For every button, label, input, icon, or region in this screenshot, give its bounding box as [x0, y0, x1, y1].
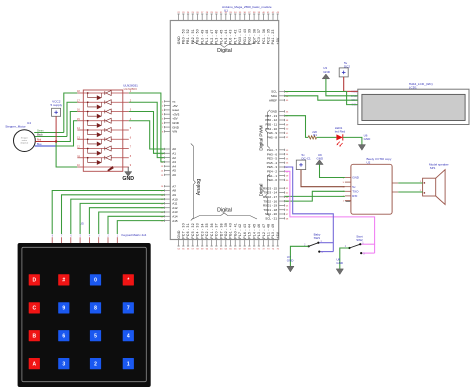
svg-text:5: 5 — [130, 127, 132, 130]
svg-text:+5V: +5V — [276, 231, 280, 238]
svg-text:GND: GND — [177, 36, 181, 45]
svg-text:2: 2 — [108, 235, 110, 238]
svg-text:1: 1 — [162, 101, 164, 103]
svg-text:PC2 - 35: PC2 - 35 — [205, 223, 209, 238]
svg-text:GND: GND — [287, 259, 295, 263]
svg-text:39: 39 — [258, 12, 261, 14]
svg-text:33: 33 — [229, 12, 232, 14]
svg-text:7: 7 — [162, 127, 164, 129]
keypad key 9 — [58, 302, 69, 313]
svg-text:60: 60 — [286, 180, 289, 182]
U1 right digital pins PH4..PE0 — [267, 148, 289, 182]
wire VCC2 to red node — [55, 116, 57, 141]
svg-text:4: 4 — [89, 235, 91, 238]
svg-text:4: 4 — [127, 334, 130, 340]
svg-text:PD7 - 38: PD7 - 38 — [219, 223, 223, 238]
svg-text:PC4 - 33: PC4 - 33 — [196, 223, 200, 238]
switch SW1 Baby — [304, 233, 323, 255]
wire DC1 to U2 5v pin — [301, 170, 345, 187]
svg-text:12: 12 — [77, 146, 80, 149]
svg-text:3: 3 — [98, 235, 100, 238]
svg-text:PL6 - 43: PL6 - 43 — [243, 224, 247, 239]
svg-text:54: 54 — [286, 154, 289, 156]
svg-text:Blue: Blue — [37, 144, 42, 146]
svg-text:71: 71 — [258, 249, 261, 251]
U1 right Digital bracket label — [259, 174, 270, 217]
wire stepper Green to ULN pin 18 — [64, 93, 78, 133]
wire ULN pin 3 to U1 A1 — [129, 112, 165, 154]
svg-text:Black: Black — [37, 135, 43, 137]
stepper lead Blue — [35, 144, 56, 146]
svg-text:PC0 - 37: PC0 - 37 — [257, 29, 261, 44]
svg-text:C: C — [32, 306, 36, 312]
keypad key 8 — [90, 302, 101, 313]
svg-text:66: 66 — [234, 249, 237, 251]
svg-text:22: 22 — [177, 12, 180, 14]
svg-text:Keypad Matrix 4x4: Keypad Matrix 4x4 — [122, 233, 147, 237]
module U1 Arduino_Mega_2560_basic_module body — [170, 21, 278, 240]
svg-text:PG0 - 41: PG0 - 41 — [233, 223, 237, 239]
display LCD1 16x2 LCD I2C body — [358, 89, 469, 124]
wire keypad pin 2 to U1 A14 — [108, 216, 164, 234]
svg-text:29: 29 — [210, 12, 213, 14]
svg-text:PG1 - 40: PG1 - 40 — [243, 29, 247, 45]
svg-text:74: 74 — [272, 249, 275, 251]
wire keypad pin 8 to U1 A8 — [52, 191, 164, 235]
svg-text:RXI: RXI — [352, 194, 357, 198]
label ULN2803 — [123, 83, 138, 90]
ground U3 GND at LCD — [322, 66, 331, 79]
wire U1 PE5-3 to SW1 via violet — [285, 167, 334, 252]
svg-text:24: 24 — [187, 12, 190, 14]
svg-text:AREF: AREF — [269, 98, 277, 102]
svg-text:0: 0 — [94, 278, 97, 284]
svg-text:42: 42 — [272, 12, 275, 14]
U? ULN2803 right pins 1..9 — [123, 90, 132, 167]
svg-text:55: 55 — [182, 249, 185, 251]
svg-text:PL0 - 49: PL0 - 49 — [200, 29, 204, 44]
svg-text:PG2 - 39: PG2 - 39 — [224, 223, 228, 239]
svg-text:GND: GND — [336, 261, 344, 265]
svg-text:PB0 - 53: PB0 - 53 — [182, 29, 186, 44]
svg-text:+5V: +5V — [276, 37, 280, 44]
speaker SP1 Model speaker — [423, 170, 446, 205]
svg-text:8: 8 — [130, 155, 132, 158]
svg-text:65: 65 — [286, 205, 289, 207]
svg-text:50: 50 — [286, 129, 289, 131]
svg-text:A15: A15 — [172, 219, 178, 223]
svg-text:14: 14 — [161, 171, 164, 173]
svg-text:SP1: SP1 — [430, 166, 436, 170]
wire keypad pin 3 to U1 A13 — [99, 212, 165, 234]
svg-text:65: 65 — [229, 249, 232, 251]
wire red node to ULN pin 16 — [56, 112, 77, 142]
wire U9 GND to U2 GND pin — [320, 165, 345, 178]
svg-text:55: 55 — [286, 158, 289, 160]
U2 FTDI left pins — [343, 176, 360, 203]
svg-text:7: 7 — [127, 306, 130, 312]
svg-text:R1: R1 — [313, 133, 317, 137]
switch SW2 Start — [345, 235, 365, 256]
keypad key 1 — [123, 358, 134, 369]
wire U3 GND to LCD GND — [326, 79, 358, 96]
svg-text:37: 37 — [248, 12, 251, 14]
svg-text:11: 11 — [77, 155, 80, 158]
svg-text:5 supply: 5 supply — [51, 103, 63, 107]
svg-text:PL0 - 49: PL0 - 49 — [271, 224, 275, 239]
svg-text:66: 66 — [286, 210, 289, 212]
svg-text:SCL - 21: SCL - 21 — [265, 217, 277, 221]
wire keypad pin 4 to U1 A12 — [89, 208, 164, 234]
svg-text:PL4 - 45: PL4 - 45 — [252, 224, 256, 239]
svg-text:61: 61 — [210, 249, 213, 251]
svg-text:73: 73 — [267, 249, 270, 251]
svg-text:13: 13 — [77, 136, 80, 139]
U1 left power pins nc..VIN — [162, 100, 180, 134]
svg-text:67: 67 — [239, 249, 242, 251]
keypad key 0 — [90, 274, 101, 285]
wire stepper Black to ULN pin 17 — [67, 102, 77, 136]
U? ULN2803 darlington elements — [83, 91, 123, 165]
svg-text:VIN: VIN — [172, 130, 177, 134]
U2 FTDI right pins — [392, 183, 398, 192]
svg-text:30: 30 — [215, 12, 218, 14]
LED1 led Red — [336, 134, 342, 146]
svg-text:60: 60 — [206, 249, 209, 251]
U1 Analog bracket label — [191, 144, 202, 221]
svg-text:59: 59 — [201, 249, 204, 251]
wire SW1 pin3 to violet bus — [321, 251, 334, 253]
svg-text:Stepper_Motor: Stepper_Motor — [5, 125, 25, 129]
keypad key 5 — [90, 330, 101, 341]
svg-text:PL5 - 44: PL5 - 44 — [224, 29, 228, 44]
svg-text:6: 6 — [162, 123, 164, 125]
svg-text:45: 45 — [286, 100, 289, 102]
keypad pin stubs and numbers — [52, 235, 119, 243]
wire SW1 pin2 to U7 GND — [290, 246, 308, 266]
svg-text:Digital: Digital — [217, 48, 232, 54]
svg-text:8: 8 — [94, 306, 97, 312]
wire ULN pin 4 to U1 A0 — [129, 121, 165, 149]
svg-text:72: 72 — [262, 249, 265, 251]
svg-text:1: 1 — [343, 200, 345, 202]
wire SW2 pin3 to magenta bus — [362, 252, 374, 254]
U1 left analog pins A7-A15 — [161, 184, 178, 222]
svg-text:58: 58 — [196, 249, 199, 251]
svg-text:PG2 - 39: PG2 - 39 — [248, 29, 252, 45]
svg-text:2: 2 — [94, 361, 97, 367]
svg-text:PL7 - 42: PL7 - 42 — [238, 224, 242, 239]
label LED1 led Red — [335, 126, 346, 134]
motor U4 Stepper_Motor — [14, 130, 36, 152]
wire keypad pin 1 to U1 A15 — [117, 221, 164, 234]
svg-text:3: 3 — [62, 361, 65, 367]
svg-text:5: 5 — [162, 119, 164, 121]
svg-text:A: A — [32, 361, 36, 367]
svg-text:9: 9 — [62, 306, 65, 312]
U1 bottom Digital bracket label — [193, 207, 258, 219]
svg-text:5v: 5v — [352, 185, 356, 189]
svg-text:68: 68 — [286, 218, 289, 220]
svg-text:PC2 - 35: PC2 - 35 — [266, 29, 270, 44]
stepper lead Green — [34, 130, 64, 133]
svg-text:GND: GND — [177, 230, 181, 239]
svg-text:B: B — [32, 334, 36, 340]
svg-text:56: 56 — [187, 249, 190, 251]
svg-text:6: 6 — [62, 334, 65, 340]
svg-text:Digital PWM: Digital PWM — [259, 125, 264, 150]
svg-text:36: 36 — [243, 12, 246, 14]
svg-text:DC-C1: DC-C1 — [302, 157, 311, 161]
label U4 Stepper_Motor — [5, 121, 31, 129]
svg-text:41: 41 — [267, 12, 270, 14]
svg-text:PG1 - 40: PG1 - 40 — [229, 223, 233, 239]
svg-text:10: 10 — [77, 164, 80, 167]
stepper lead Red — [35, 140, 56, 142]
wire U2 to SP1 plus — [398, 181, 422, 183]
resistor R1 220 — [308, 130, 317, 139]
svg-text:GND: GND — [323, 70, 331, 74]
label LCD1 Hd44_LCD_(I2C) — [409, 82, 433, 90]
svg-text:U4: U4 — [27, 121, 31, 125]
svg-text:GND: GND — [364, 137, 372, 141]
svg-text:59: 59 — [286, 176, 289, 178]
svg-text:PC7 - 30: PC7 - 30 — [182, 223, 186, 238]
svg-text:(bipolar): (bipolar) — [21, 141, 29, 144]
supply DC2 5v — [339, 61, 350, 77]
svg-text:8: 8 — [162, 131, 164, 133]
svg-text:*: * — [127, 278, 129, 284]
svg-text:35: 35 — [239, 12, 242, 14]
svg-text:PL7 - 42: PL7 - 42 — [233, 29, 237, 44]
keypad key # — [58, 274, 69, 285]
svg-text:25: 25 — [192, 12, 195, 14]
keypad key 3 — [58, 358, 69, 369]
svg-text:PG0 - 41: PG0 - 41 — [238, 29, 242, 45]
svg-text:Red: Red — [37, 140, 42, 142]
wire ULN pin 1 to U1 A3 — [129, 93, 165, 162]
svg-text:9: 9 — [130, 164, 132, 167]
wire keypad pin 6 to U1 A10 — [71, 199, 165, 234]
svg-text:61: 61 — [286, 188, 289, 190]
svg-text:D: D — [32, 278, 36, 284]
svg-text:1: 1 — [117, 235, 119, 238]
svg-text:Digital: Digital — [259, 184, 264, 197]
svg-text:PL3 - 46: PL3 - 46 — [257, 224, 261, 239]
svg-text:PE0 - 0: PE0 - 0 — [267, 178, 277, 182]
wire keypad pin 7 to U1 A9 — [62, 195, 165, 234]
svg-text:70: 70 — [253, 249, 256, 251]
svg-text:63: 63 — [286, 197, 289, 199]
label U1 Arduino_Mega_2560_basic_module — [222, 5, 272, 12]
svg-text:46: 46 — [286, 111, 289, 113]
module U2 Beety 3 FTDI copy body — [351, 164, 392, 214]
svg-text:Arduino_Mega_2560_basic_module: Arduino_Mega_2560_basic_module — [222, 5, 272, 9]
svg-text:63: 63 — [220, 249, 223, 251]
svg-text:GND: GND — [316, 156, 324, 160]
svg-text:17: 17 — [77, 99, 80, 102]
keypad key B — [29, 330, 40, 341]
U1 Digital PWM bracket label — [259, 110, 270, 151]
ground GND below ULN2803 — [122, 167, 134, 182]
svg-text:GND: GND — [122, 176, 134, 182]
svg-text:TXO: TXO — [352, 190, 359, 194]
svg-text:53: 53 — [286, 150, 289, 152]
svg-text:14: 14 — [77, 127, 80, 130]
ground U7 GND at SW1 — [287, 255, 295, 272]
wire U1 RXD2-17 to U2 RXI — [285, 195, 345, 197]
wire U1 TXD2-16 to U2 TXO — [285, 191, 345, 201]
wire red node to ULN pin 10 COM — [56, 142, 77, 168]
svg-text:43: 43 — [277, 12, 280, 14]
wire stepper Blue to ULN pin 15 — [56, 121, 77, 146]
svg-text:PA1 - 23: PA1 - 23 — [271, 29, 275, 44]
svg-text:5: 5 — [80, 235, 82, 238]
keypad key 2 — [90, 358, 101, 369]
svg-text:6: 6 — [130, 136, 132, 139]
svg-text:67: 67 — [286, 214, 289, 216]
svg-text:62: 62 — [286, 193, 289, 195]
keypad U5 Keypad Matrix 4x4 body — [18, 243, 151, 387]
wire ULN pin 2 to U1 A2 — [129, 102, 165, 157]
keypad key A — [29, 358, 40, 369]
svg-text:PL4 - 45: PL4 - 45 — [219, 29, 223, 44]
svg-text:52: 52 — [286, 137, 289, 139]
svg-text:PH5 - 8: PH5 - 8 — [267, 135, 278, 139]
svg-text:PC1 - 36: PC1 - 36 — [262, 29, 266, 44]
svg-text:PB1 - 52: PB1 - 52 — [186, 29, 190, 44]
U? ULN2803 common/GND row — [83, 166, 123, 171]
svg-text:4: 4 — [162, 114, 164, 116]
svg-text:40: 40 — [262, 12, 265, 14]
keypad key 6 — [58, 330, 69, 341]
U1 right PWM pins GND PB7..PH5 — [265, 110, 289, 140]
svg-text:U2: U2 — [367, 161, 371, 165]
U1 right pins SCL SDA AREF — [269, 90, 289, 103]
svg-text:16: 16 — [77, 109, 80, 112]
stepper lead Black — [35, 135, 67, 137]
svg-text:49: 49 — [286, 124, 289, 126]
U1 right serial pins RXD3..SCL-21 — [263, 186, 289, 220]
U1 top Digital bracket label — [193, 41, 258, 54]
svg-text:1: 1 — [127, 361, 130, 367]
keypad key 7 — [123, 302, 134, 313]
svg-text:68: 68 — [243, 249, 246, 251]
svg-text:16: 16 — [161, 186, 164, 188]
svg-text:64: 64 — [225, 249, 228, 251]
svg-text:5: 5 — [94, 334, 97, 340]
svg-text:51: 51 — [286, 133, 289, 135]
svg-text:PB3 - 50: PB3 - 50 — [196, 29, 200, 44]
svg-text:#: # — [62, 278, 65, 284]
svg-text:57: 57 — [192, 249, 195, 251]
U1 left analog pins A0-A6 — [161, 147, 176, 177]
svg-text:PC6 - 31: PC6 - 31 — [186, 223, 190, 238]
wire U2 to SP1 minus — [398, 190, 422, 192]
wire SW2 pin1 to magenta bus — [362, 243, 375, 245]
junction red node — [55, 140, 57, 142]
svg-text:8: 8 — [52, 235, 54, 238]
label U2 Beety 3 FTDI copy — [367, 157, 392, 164]
svg-text:PL3 - 46: PL3 - 46 — [215, 29, 219, 44]
wire U1 SDA to LCD SDA — [285, 96, 358, 100]
svg-text:led Red: led Red — [335, 130, 346, 134]
wire U1 SCL to LCD SCL — [285, 92, 358, 105]
keypad key D — [29, 274, 40, 285]
svg-text:38: 38 — [253, 12, 256, 14]
keypad key C — [29, 302, 40, 313]
svg-text:56: 56 — [286, 163, 289, 165]
wire DC2 to LCD VCC — [344, 77, 358, 92]
supply DC1 5v — [296, 153, 311, 170]
svg-text:PL1 - 48: PL1 - 48 — [266, 224, 270, 239]
svg-text:27: 27 — [201, 12, 204, 14]
svg-text:DC2: DC2 — [344, 64, 350, 68]
IC ULN2803 body — [83, 90, 123, 171]
svg-text:13: 13 — [161, 166, 164, 168]
svg-text:Analog: Analog — [196, 179, 202, 196]
svg-text:PC1 - 36: PC1 - 36 — [210, 223, 214, 238]
wire U1 PE4-2 to SW2 via magenta — [285, 171, 375, 253]
keypad key * — [123, 274, 134, 285]
svg-text:PL1 - 48: PL1 - 48 — [205, 29, 209, 44]
svg-text:15: 15 — [161, 175, 164, 177]
svg-text:69: 69 — [248, 249, 251, 251]
svg-text:6: 6 — [70, 235, 72, 238]
svg-text:3: 3 — [162, 110, 164, 112]
svg-text:75: 75 — [277, 249, 280, 251]
keypad key 4 — [123, 330, 134, 341]
svg-text:PC3 - 34: PC3 - 34 — [200, 223, 204, 238]
wire U1 PB7-13 to resistor R1 — [285, 116, 309, 138]
wire LED1 to U6 GND — [343, 137, 362, 144]
svg-text:PL6 - 43: PL6 - 43 — [229, 29, 233, 44]
svg-text:A6: A6 — [172, 173, 176, 177]
svg-text:28: 28 — [206, 12, 209, 14]
svg-text:Digital: Digital — [217, 207, 232, 213]
U1 bottom digital header pins — [177, 223, 280, 251]
supply VCC2 5 supply — [51, 100, 63, 117]
label SP1 Model speaker — [429, 162, 449, 169]
svg-text:2: 2 — [162, 106, 164, 108]
wire R1 to LED1 — [317, 136, 337, 138]
svg-text:23: 23 — [182, 12, 185, 14]
svg-text:PC0 - 37: PC0 - 37 — [215, 223, 219, 238]
svg-text:26: 26 — [196, 12, 199, 14]
U1 top digital header pins 22..43 — [177, 12, 280, 44]
wire keypad pin 5 to U1 A11 — [80, 203, 164, 234]
svg-text:48: 48 — [286, 120, 289, 122]
svg-text:7: 7 — [130, 146, 132, 149]
svg-text:PL5 - 44: PL5 - 44 — [248, 224, 252, 239]
LCD pin labels VCC GND SDA SCL — [351, 89, 358, 106]
svg-text:5: 5 — [343, 182, 345, 184]
ground U9 GND at FTDI — [316, 153, 324, 165]
svg-text:18: 18 — [77, 90, 80, 93]
svg-text:PL2 - 47: PL2 - 47 — [210, 29, 214, 44]
ground U8 GND at SW2 — [336, 257, 344, 274]
svg-text:LCD1: LCD1 — [409, 86, 417, 90]
svg-text:Green: Green — [37, 130, 44, 133]
wire SW1 pin1 to violet bus — [320, 242, 334, 244]
svg-text:GND: GND — [352, 176, 360, 180]
svg-text:62: 62 — [215, 249, 218, 251]
svg-text:31: 31 — [220, 12, 223, 14]
U? ULN2803 left pins 18..10 — [77, 90, 83, 167]
svg-text:7: 7 — [61, 235, 63, 238]
wire SW2 pin2 to U8 GND — [340, 248, 350, 269]
svg-text:15: 15 — [77, 118, 80, 121]
